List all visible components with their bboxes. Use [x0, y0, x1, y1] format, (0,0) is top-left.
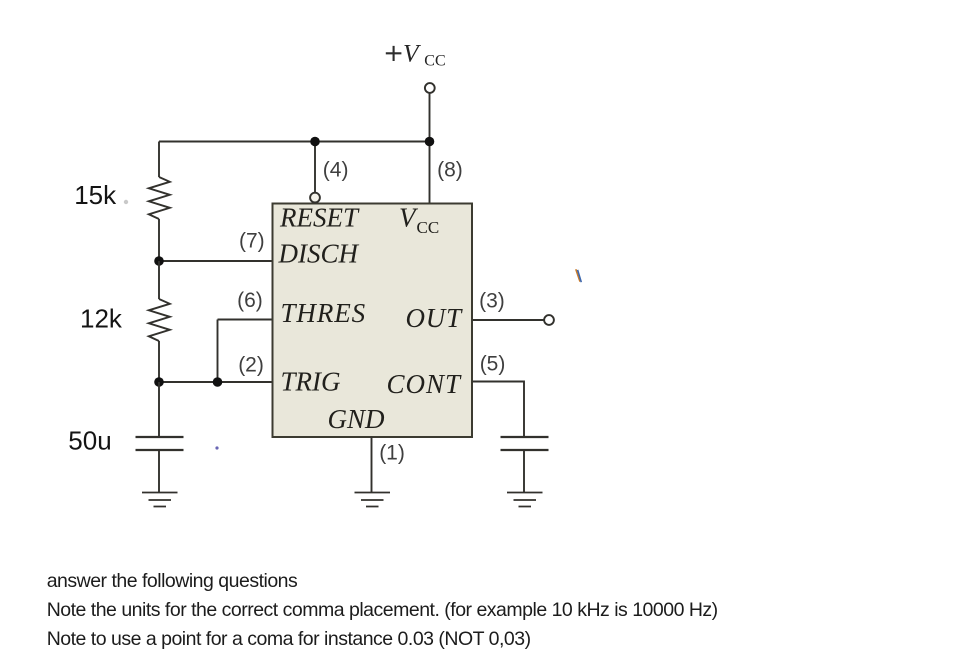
artifact: small two-tone backslash mark	[576, 269, 580, 281]
svg-text:V: V	[403, 39, 422, 68]
artifact: faint grey dot right of 15k	[124, 200, 128, 204]
svg-text:TRIG: TRIG	[281, 367, 341, 397]
junction: node pin8 on top rail	[425, 137, 435, 147]
junction: node THRES branch on TRIG wire	[213, 377, 223, 387]
svg-text:(1): (1)	[379, 441, 405, 464]
svg-text:THRES: THRES	[281, 298, 367, 328]
wire: R2 bottom to TRIG node	[158, 341, 160, 382]
resistor R1 15k zigzag	[149, 177, 170, 219]
resistor R2 12k zigzag	[149, 299, 170, 341]
junction: node pin4 on top rail	[310, 137, 320, 147]
wire: DISCH pin 7 horizontal to IC	[159, 260, 272, 262]
ground symbol: below IC GND	[355, 493, 391, 507]
svg-text:(2): (2)	[238, 354, 264, 377]
svg-text:CC: CC	[424, 53, 445, 70]
wire: pin 8 drop from rail into IC Vcc	[429, 142, 431, 204]
svg-text:(5): (5)	[480, 353, 506, 376]
ground symbol: below C1	[142, 493, 178, 507]
wire: TRIG node down to capacitor C1	[158, 382, 160, 436]
wire: CONT pin 5 over and down to capacitor C2	[473, 382, 525, 437]
svg-text:answer the following questions: answer the following questions	[47, 570, 298, 592]
wire: left rail from top rail to R1	[158, 142, 160, 178]
wire: Vcc terminal stem down to rail junction	[429, 93, 431, 142]
svg-text:CONT: CONT	[387, 369, 463, 399]
wire: GND pin 1 from IC bottom to ground	[371, 437, 373, 493]
wire: DISCH node down to R2	[158, 261, 160, 299]
op IC U1 555 timer body	[273, 204, 473, 438]
svg-text:15k: 15k	[74, 180, 117, 210]
svg-text:(4): (4)	[323, 159, 349, 182]
svg-text:(6): (6)	[237, 289, 263, 312]
ground symbol: below C2	[507, 493, 543, 507]
svg-text:RESET: RESET	[279, 203, 360, 233]
terminal: RESET pin circle on IC top	[310, 193, 320, 203]
wire: C2 bottom plate to ground	[523, 451, 525, 492]
wire: R1 bottom to DISCH node	[158, 219, 160, 261]
wire: C1 bottom plate to ground	[158, 451, 160, 492]
wire: THRES pin 6 horizontal to IC	[218, 319, 273, 321]
capacitor C1 50u plates	[136, 437, 184, 450]
power terminal: +Vcc open circle	[425, 83, 435, 93]
svg-text:(3): (3)	[479, 290, 505, 313]
junction: node TRIG on left rail	[154, 377, 164, 387]
terminal: OUT open circle	[544, 315, 554, 325]
wire: OUT pin 3 to output terminal	[473, 319, 545, 321]
svg-text:12k: 12k	[80, 304, 123, 334]
label: +Vcc plus sign	[386, 46, 402, 61]
junction: node DISCH on left rail	[154, 256, 164, 266]
artifact: small blue dot right of C1	[215, 446, 218, 449]
svg-text:OUT: OUT	[406, 303, 464, 333]
svg-text:(8): (8)	[437, 159, 463, 182]
svg-text:(7): (7)	[239, 229, 265, 252]
svg-text:50u: 50u	[68, 426, 111, 456]
capacitor C2 plates	[501, 437, 549, 450]
svg-text:DISCH: DISCH	[278, 239, 360, 269]
svg-text:GND: GND	[328, 404, 386, 434]
wire: THRES branch vertical from TRIG rail	[217, 320, 219, 383]
svg-text:CC: CC	[417, 218, 440, 237]
wire: TRIG pin 2 horizontal to IC	[159, 381, 272, 383]
svg-text:Note to use a point for a coma: Note to use a point for a coma for insta…	[47, 628, 531, 650]
svg-text:Note the units for the correct: Note the units for the correct comma pla…	[47, 599, 718, 621]
wire: +Vcc top rail from R1 top to pin 8	[159, 141, 430, 143]
wire: pin 4 drop from rail to RESET terminal circle	[314, 142, 316, 193]
